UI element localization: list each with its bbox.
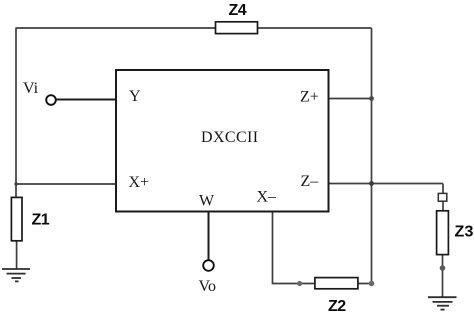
svg-text:X+: X+	[129, 174, 150, 191]
svg-text:Z1: Z1	[32, 212, 50, 229]
svg-text:W: W	[199, 193, 215, 210]
svg-text:Z2: Z2	[328, 298, 346, 313]
svg-text:Z–: Z–	[301, 173, 320, 190]
svg-text:Y: Y	[129, 88, 141, 105]
svg-text:Z4: Z4	[229, 2, 247, 19]
svg-text:Z+: Z+	[300, 89, 319, 106]
svg-text:X–: X–	[257, 189, 278, 206]
svg-text:Z3: Z3	[455, 224, 474, 241]
svg-text:Vi: Vi	[23, 80, 39, 97]
svg-text:Vo: Vo	[199, 278, 217, 295]
svg-text:DXCCII: DXCCII	[201, 129, 259, 146]
